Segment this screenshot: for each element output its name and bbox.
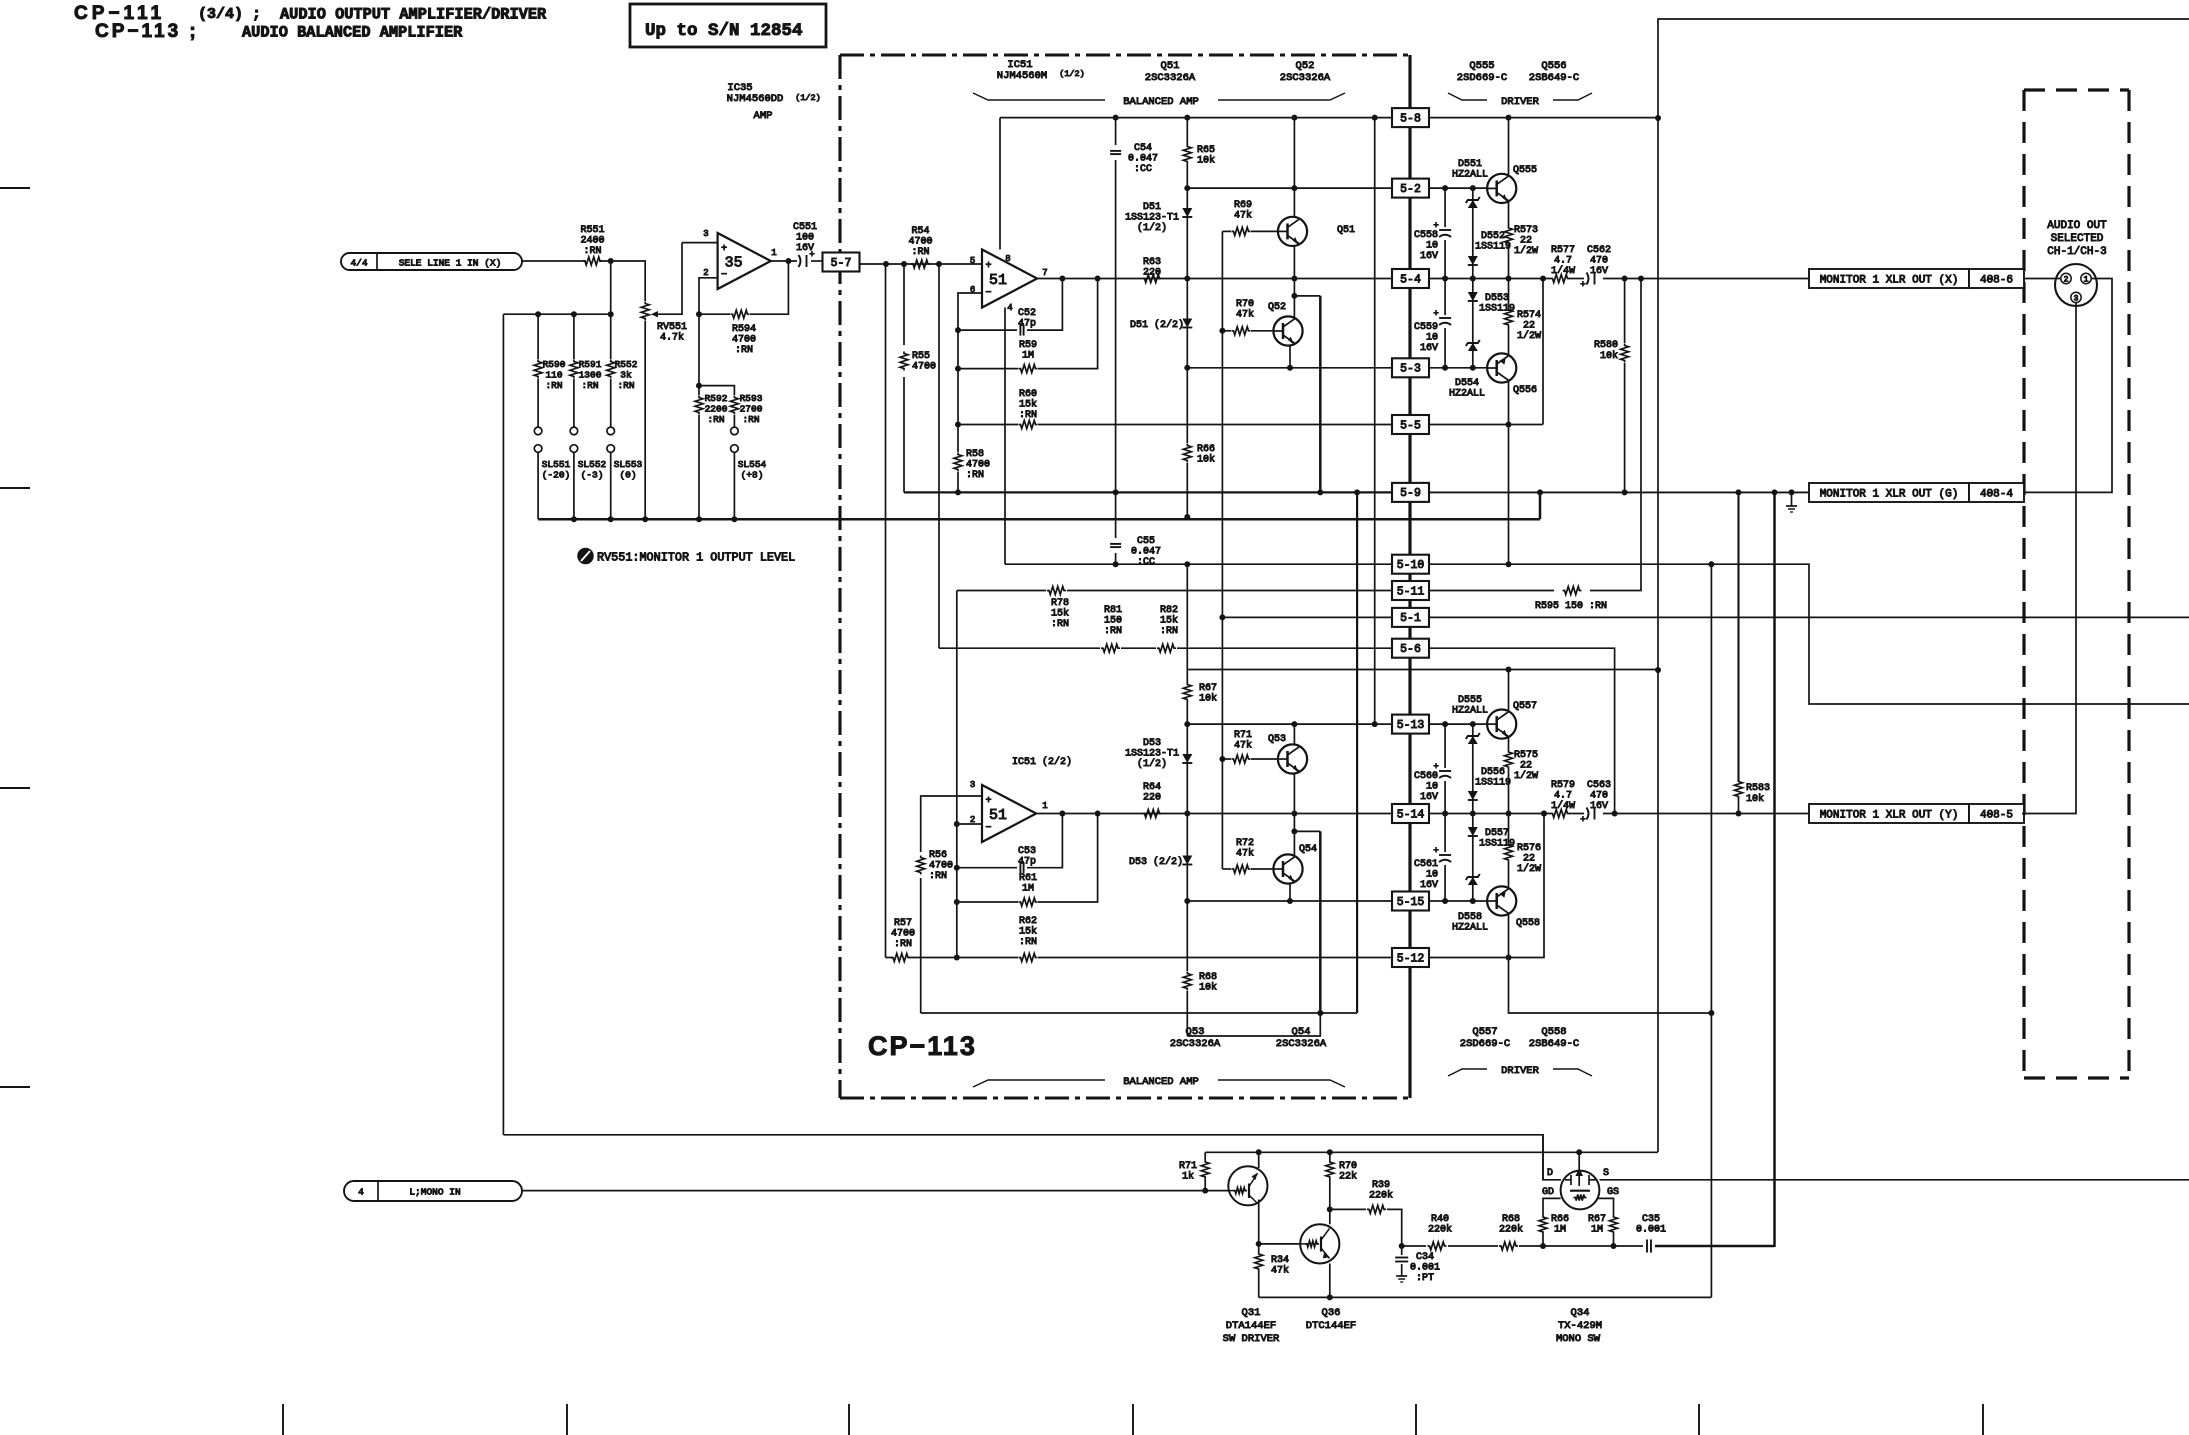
svg-text:R579: R579 [1551, 780, 1575, 791]
svg-text:7: 7 [1042, 268, 1047, 278]
svg-text:IC51 (2/2): IC51 (2/2) [1012, 756, 1072, 768]
wire: 5-3 net [1187, 367, 1392, 369]
FET Q34 TX-429M (mono switch) [1543, 1245, 1614, 1247]
svg-text:4/4: 4/4 [350, 258, 367, 269]
svg-text:R39: R39 [1372, 1180, 1390, 1191]
svg-text::RN: :RN [617, 380, 634, 391]
svg-text:BALANCED AMP: BALANCED AMP [1123, 1076, 1199, 1088]
net-name box: MONITOR 1 XLR OUT (G) / 408-4 [1809, 483, 1969, 502]
svg-text:R594: R594 [732, 324, 756, 335]
svg-text:51: 51 [989, 272, 1007, 289]
svg-text:AUDIO OUTPUT AMPLIFIER/DRIVER: AUDIO OUTPUT AMPLIFIER/DRIVER [280, 6, 547, 24]
svg-text:Q558: Q558 [1541, 1026, 1566, 1038]
svg-text:S: S [1603, 1168, 1609, 1179]
XLR output connector J (pins 1,2,3) [2055, 264, 2097, 306]
svg-text:22: 22 [1520, 761, 1532, 772]
resistor R551 2400 :RN [583, 257, 602, 265]
resistor R592 2200 :RN [698, 386, 700, 395]
transistor Q52 2SC3326A [1273, 316, 1302, 345]
wire: Q54 emitter to 5-15 net [1289, 884, 1291, 902]
svg-text:R576: R576 [1517, 843, 1541, 854]
svg-text:Q556: Q556 [1541, 60, 1566, 72]
svg-text:R81: R81 [1104, 605, 1122, 616]
svg-text:220k: 220k [1499, 1224, 1523, 1236]
svg-text:R69: R69 [1234, 200, 1252, 211]
svg-text:408-6: 408-6 [1980, 275, 2013, 287]
connector 5-9 [1392, 483, 1429, 502]
svg-text:1M: 1M [1554, 1225, 1566, 1236]
serial-number box: Up to S/N 12854 [630, 4, 826, 47]
svg-text::RN: :RN [1104, 626, 1122, 637]
svg-text:+: + [1580, 280, 1585, 290]
dashed unit boundary box (right side) [2024, 88, 2129, 91]
svg-text:(+8): (+8) [741, 470, 764, 481]
svg-text:C551: C551 [793, 222, 817, 233]
svg-text:TX-429M: TX-429M [1558, 1320, 1602, 1332]
wire: X net from op-amp output to 5-4 [1037, 278, 1392, 280]
capacitor C560 10/16V [1444, 724, 1446, 768]
svg-text:2SD669-C: 2SD669-C [1457, 72, 1507, 84]
resistor R65 10k (5-8 to 5-2) [1186, 118, 1188, 145]
svg-text:RV551: RV551 [657, 322, 687, 333]
resistor R54 4700 :RN [911, 260, 930, 268]
svg-text:(1/2): (1/2) [1059, 69, 1085, 79]
svg-text:D51: D51 [1143, 202, 1161, 213]
resistor R66 10k (to G bus) [1186, 368, 1188, 443]
svg-text:35: 35 [725, 254, 743, 271]
svg-text::RN: :RN [1160, 626, 1178, 637]
svg-text:5-5: 5-5 [1400, 419, 1421, 432]
svg-text:4700: 4700 [966, 460, 990, 471]
connector 5-15 [1392, 892, 1429, 911]
connector 5-11 [1392, 581, 1429, 600]
svg-text:D51 (2/2): D51 (2/2) [1130, 319, 1184, 331]
svg-text:220k: 220k [1369, 1190, 1393, 1202]
svg-text:SW DRIVER: SW DRIVER [1223, 1333, 1280, 1345]
wire: 5-13 net [1187, 723, 1392, 725]
svg-text:SL552: SL552 [578, 459, 607, 470]
resistor R595 150 :RN [1563, 587, 1582, 595]
svg-text:2SB649-C: 2SB649-C [1529, 1038, 1579, 1050]
resistor R55 4700 (to G) [903, 264, 905, 345]
svg-text:4: 4 [358, 1187, 364, 1198]
svg-text:C559: C559 [1414, 322, 1438, 333]
svg-text::RN: :RN [1019, 937, 1037, 948]
svg-text:8: 8 [1005, 254, 1010, 264]
svg-text:2700: 2700 [740, 404, 763, 415]
capacitor C34 0.001 :PT with ground [1401, 1246, 1403, 1255]
resistor R575 22 1/2W (Q557 emitter) [1508, 738, 1510, 750]
svg-text:HZ2ALL: HZ2ALL [1452, 923, 1488, 934]
wire: Q51 emitter to X net to Q52 collector [1293, 246, 1295, 317]
svg-text:16V: 16V [1590, 266, 1608, 277]
resistor R67 1M (gate-source) [1613, 1234, 1615, 1246]
connector 5-12 [1392, 948, 1429, 967]
transistor Q556 2SB649-C [1487, 353, 1516, 382]
wire: collector branch to G (thick) [1294, 295, 1320, 297]
svg-text:DTA144EF: DTA144EF [1226, 1320, 1276, 1332]
svg-text:2SC3326A: 2SC3326A [1145, 72, 1196, 84]
svg-text:SELE LINE 1 IN (X): SELE LINE 1 IN (X) [399, 258, 502, 269]
svg-text::RN: :RN [735, 345, 753, 356]
resistor R34 47k [1258, 1244, 1260, 1252]
capacitor C561 10/16V [1444, 814, 1446, 853]
svg-text:10: 10 [1426, 241, 1438, 252]
svg-text:AUDIO OUT: AUDIO OUT [2047, 220, 2107, 232]
resistor R70 22k [1326, 1160, 1334, 1179]
svg-text:2: 2 [703, 268, 708, 278]
connector 5-3 [1392, 358, 1429, 377]
svg-text:−: − [721, 270, 727, 281]
wire: X net into XLR pin 2 [2024, 278, 2061, 280]
svg-text:R71: R71 [1234, 730, 1252, 741]
wire: 5-7 drop to lower amp (R57) [885, 264, 887, 958]
op-amp IC35 (35) [718, 233, 771, 289]
svg-text::RN: :RN [545, 380, 562, 391]
svg-text::RN: :RN [929, 871, 947, 882]
diode D51 (2/2) [1186, 279, 1188, 368]
svg-text::RN: :RN [894, 939, 912, 950]
svg-text:22k: 22k [1339, 1171, 1357, 1183]
svg-text:R575: R575 [1514, 750, 1538, 761]
svg-text:R54: R54 [911, 226, 929, 237]
svg-text:Q52: Q52 [1268, 302, 1286, 313]
svg-text:−: − [985, 288, 991, 299]
svg-text:R40: R40 [1431, 1214, 1449, 1225]
connector 5-14 [1392, 804, 1429, 823]
svg-text:0.001: 0.001 [1636, 1225, 1666, 1236]
svg-text:R71: R71 [1179, 1161, 1197, 1172]
bias rail from 5-1 to 47k bases [1221, 231, 1223, 617]
svg-text:(0): (0) [619, 470, 636, 481]
resistor R72 47k (base Q54) [1222, 868, 1231, 870]
bracket DRIVER (top) [1448, 93, 1487, 100]
wire: Q53 emitter to Y net to Q54 collector [1293, 773, 1295, 855]
resistor R70 47k (base Q52) [1222, 330, 1231, 332]
svg-text:Q52: Q52 [1296, 60, 1315, 72]
svg-text:Q34: Q34 [1571, 1307, 1590, 1319]
transistor Q36 DTC144EF (digital NPN) [1300, 1224, 1339, 1263]
wire: 5-11 net through R595 up to X net [1429, 590, 1554, 592]
svg-text:3k: 3k [620, 370, 632, 381]
resistor R61 1M (feedback) [957, 901, 1018, 903]
slide switch SL552 (-3) [570, 427, 578, 435]
svg-text:110: 110 [545, 370, 562, 381]
svg-text:5-7: 5-7 [831, 257, 852, 270]
capacitor C52 47p (feedback) [958, 329, 1017, 331]
svg-text:5-10: 5-10 [1397, 559, 1425, 572]
svg-text:220k: 220k [1428, 1224, 1452, 1236]
svg-text:R65: R65 [1197, 145, 1215, 156]
svg-text:16V: 16V [1420, 880, 1438, 891]
resistor R81 150 :RN [1101, 644, 1120, 652]
svg-text:1SS123-T1: 1SS123-T1 [1125, 749, 1179, 760]
svg-text:C54: C54 [1134, 143, 1152, 154]
ground symbol near XLR G [1791, 492, 1793, 506]
transistor Q53 2SC3326A [1293, 724, 1295, 745]
svg-text:R57: R57 [894, 918, 912, 929]
svg-text:4700: 4700 [891, 929, 915, 940]
svg-text:15k: 15k [1051, 608, 1069, 620]
transistor Q54 2SC3326A [1273, 854, 1302, 883]
svg-text:DTC144EF: DTC144EF [1306, 1320, 1356, 1332]
wire: lower rail 2 (R68 return) [1187, 1013, 1320, 1036]
net-name box: MONITOR 1 XLR OUT (Y) / 408-5 [1809, 804, 1969, 823]
svg-text:DRIVER: DRIVER [1501, 96, 1540, 108]
wire: 5-15 net [1187, 900, 1392, 902]
wire: 5-7 drop to 5-6 net [938, 264, 940, 648]
svg-text:(1/2): (1/2) [1137, 222, 1167, 234]
svg-text::PT: :PT [1416, 1273, 1434, 1284]
resistor R63 220 (X net) [1143, 275, 1162, 283]
connector 5-1 [1392, 608, 1429, 627]
resistor R57 4700 :RN (input from 5-7 drop) [886, 957, 893, 959]
svg-text:D554: D554 [1455, 378, 1479, 389]
svg-text:+: + [721, 244, 727, 255]
diode D53 (2/2) [1186, 814, 1188, 902]
svg-text:C35: C35 [1642, 1214, 1660, 1225]
svg-text:NJM4560M: NJM4560M [997, 70, 1047, 82]
svg-text:4: 4 [1007, 303, 1012, 313]
svg-text:470: 470 [1590, 256, 1608, 267]
svg-text:R61: R61 [1019, 873, 1037, 884]
wire: thick mute line from C35 to G net [1655, 1245, 1775, 1248]
resistor R60 15k :RN (to 5-5) [958, 424, 1018, 426]
wire: Q31 collector row to Q36 base [1259, 1243, 1301, 1245]
wire: IC51a pin4 down to 5-10 rail [1004, 308, 1006, 565]
connector 5-2 [1392, 179, 1429, 198]
svg-text:R55: R55 [912, 351, 930, 362]
svg-text:+: + [985, 261, 991, 272]
resistor R40 220k [1428, 1242, 1447, 1250]
svg-text:D552: D552 [1481, 231, 1505, 242]
svg-text:GD: GD [1542, 1187, 1554, 1198]
wire: R70 column (Q36 collector to rail) [1329, 1152, 1331, 1160]
svg-text:CP−113: CP−113 [868, 1031, 977, 1061]
wire: IC51a pin8 up to 5-8 rail [999, 118, 1001, 250]
svg-text:R593: R593 [740, 393, 763, 404]
svg-text:47k: 47k [1236, 309, 1254, 321]
svg-text:47p: 47p [1018, 319, 1036, 330]
svg-text:HZ2ALL: HZ2ALL [1452, 706, 1488, 717]
svg-text:R34: R34 [1271, 1255, 1289, 1266]
svg-text:16V: 16V [796, 243, 814, 254]
wire: +input via R56 to ground rail [921, 796, 982, 852]
svg-text:1SS119: 1SS119 [1475, 242, 1511, 253]
svg-text:16V: 16V [1420, 343, 1438, 354]
note: RV551 MONITOR 1 OUTPUT LEVEL [578, 549, 593, 564]
wire: -input vertical with feedback taps [958, 293, 982, 425]
svg-text:R580: R580 [1594, 340, 1618, 351]
svg-text:MONITOR 1 XLR OUT (Y): MONITOR 1 XLR OUT (Y) [1820, 810, 1959, 822]
svg-text:10k: 10k [1199, 693, 1217, 705]
capacitor C55 0.047 :CC [1115, 492, 1117, 538]
svg-text:R592: R592 [705, 393, 728, 404]
svg-text:C563: C563 [1587, 780, 1611, 791]
wire: Y net from op-amp output to 5-14 [1037, 813, 1392, 815]
svg-text::RN: :RN [742, 414, 759, 425]
resistor R59 1M (feedback) [958, 368, 1018, 370]
svg-text:D555: D555 [1458, 695, 1482, 706]
resistor R62 15k :RN (to 5-12) [957, 957, 1018, 959]
svg-text:R551: R551 [580, 225, 604, 236]
resistor R39 220k [1330, 1208, 1366, 1210]
svg-text:R573: R573 [1514, 225, 1538, 236]
transistor Q51 2SC3326A [1293, 118, 1295, 217]
svg-text:GS: GS [1607, 1187, 1619, 1198]
wire: +input net from 5-7 [859, 263, 982, 265]
svg-text:1/2W: 1/2W [1517, 330, 1541, 342]
svg-text:5-11: 5-11 [1397, 585, 1425, 598]
svg-text:3: 3 [703, 229, 708, 239]
wire: 5-10 rail (left of connector) [1005, 563, 1392, 565]
svg-text:1k: 1k [1182, 1171, 1194, 1183]
wire: 5-2 net [1187, 187, 1392, 189]
bracket BALANCED AMP (top) [973, 93, 1105, 100]
svg-text::RN: :RN [583, 246, 601, 257]
svg-text:(3/4) ;: (3/4) ; [198, 6, 261, 23]
svg-text:15k: 15k [1160, 615, 1178, 627]
resistor R68 220k [1499, 1242, 1518, 1250]
svg-text:4700: 4700 [732, 335, 756, 346]
svg-text:5-13: 5-13 [1397, 719, 1425, 732]
svg-text:R590: R590 [543, 359, 566, 370]
svg-text:CP−113 ;: CP−113 ; [95, 21, 199, 42]
svg-text:5-2: 5-2 [1400, 183, 1421, 196]
svg-text:10k: 10k [1746, 793, 1764, 805]
slide switch SL554 (+8) [731, 427, 739, 435]
wire: Q555 collector to 5-8 rail [1508, 118, 1510, 175]
svg-text:Q51: Q51 [1161, 60, 1180, 72]
transistor Q558 2SB649-C [1487, 886, 1516, 915]
wire: left feed down (to board bottom) [502, 314, 504, 1135]
svg-text:1SS119: 1SS119 [1475, 778, 1511, 789]
svg-text:D557: D557 [1485, 828, 1509, 839]
capacitor C563 470/16V (Y net) [1587, 808, 1589, 820]
svg-text:3: 3 [2074, 294, 2079, 303]
wire: mono-in row to Q31 base [522, 1190, 1229, 1192]
svg-text:10k: 10k [1199, 982, 1217, 994]
svg-text:220: 220 [1143, 268, 1161, 279]
svg-text:SL553: SL553 [614, 459, 643, 470]
svg-text:R574: R574 [1517, 310, 1541, 321]
wire: switched output rail y1152 [1205, 1151, 1658, 1153]
resistor R583 10k (G net to Y net) [1737, 492, 1739, 781]
svg-text:1M: 1M [1022, 884, 1034, 895]
svg-text:R67: R67 [1588, 1214, 1606, 1225]
svg-text:10: 10 [1426, 333, 1438, 344]
connector bus (board edge, thick vertical) [1408, 55, 1411, 1098]
svg-text:MONITOR 1 XLR OUT (X): MONITOR 1 XLR OUT (X) [1820, 275, 1959, 287]
wire: G net from 5-9 to XLR G box [1429, 491, 1809, 493]
svg-text:408-4: 408-4 [1980, 489, 2013, 501]
wire: bottom return row to x1711 [1259, 1296, 1712, 1298]
bracket BALANCED AMP (bottom) [973, 1080, 1105, 1087]
input connector pill: 4 L;MONO IN [344, 1181, 522, 1201]
svg-text:R70: R70 [1236, 299, 1254, 310]
svg-text:22: 22 [1520, 236, 1532, 247]
svg-text:4.7: 4.7 [1554, 791, 1572, 802]
svg-text:5-4: 5-4 [1400, 273, 1421, 286]
svg-text:1/2W: 1/2W [1517, 863, 1541, 875]
capacitor C551 100/16V [799, 255, 801, 267]
resistor R590 110 :RN [537, 314, 539, 359]
svg-text:2200: 2200 [705, 404, 728, 415]
svg-text::CC: :CC [1137, 557, 1155, 568]
svg-text:D558: D558 [1458, 912, 1482, 923]
wire: -input node vertical (from 5-11 feed) [956, 591, 958, 958]
svg-text:5-14: 5-14 [1397, 808, 1425, 821]
svg-text:MONO SW: MONO SW [1556, 1333, 1601, 1345]
FET body Q34 [1561, 1171, 1600, 1210]
resistor R58 4700 :RN (to G) [957, 425, 959, 453]
svg-text:(1/2): (1/2) [795, 93, 821, 103]
op-amp IC51b (2/2) [982, 785, 1036, 842]
svg-text:4.7: 4.7 [1554, 256, 1572, 267]
input connector pill: 4/4 SELE LINE 1 IN (X) [341, 253, 522, 270]
svg-text:R66: R66 [1551, 1214, 1569, 1225]
svg-text:5-1: 5-1 [1400, 612, 1421, 625]
svg-text:1: 1 [1042, 801, 1047, 811]
svg-text:0.047: 0.047 [1131, 547, 1161, 558]
wire: gate row R40/R68/C35 [1402, 1245, 1426, 1247]
svg-text:22: 22 [1523, 854, 1535, 865]
resistor R577 4.7 1/4W (X net) [1544, 278, 1551, 280]
svg-text:C558: C558 [1414, 230, 1438, 241]
resistor R71 1k [1204, 1152, 1206, 1160]
capacitor C562 470/16V (X net) [1587, 273, 1589, 285]
svg-text:C53: C53 [1018, 846, 1036, 857]
svg-text:1M: 1M [1022, 351, 1034, 362]
svg-text:R67: R67 [1199, 683, 1217, 694]
svg-text:Q556: Q556 [1513, 385, 1537, 396]
svg-text:R59: R59 [1019, 340, 1037, 351]
svg-text:15k: 15k [1019, 399, 1037, 411]
svg-text:R68: R68 [1502, 1214, 1520, 1225]
wire: 5-11 net with R78 to lower -input [957, 590, 1046, 592]
svg-text:R583: R583 [1746, 783, 1770, 794]
svg-text:C560: C560 [1414, 771, 1438, 782]
wire: input row to R551 and RV551 [522, 260, 586, 262]
svg-text:NJM4560DD: NJM4560DD [727, 93, 784, 105]
svg-text:10: 10 [1426, 870, 1438, 881]
svg-text:10k: 10k [1197, 155, 1215, 167]
resistor R66 1M (gate-drain) [1542, 1234, 1544, 1246]
svg-text:2SC3326A: 2SC3326A [1276, 1038, 1327, 1050]
svg-text:47k: 47k [1234, 210, 1252, 222]
wire: Q52 emitter to 5-3 net [1289, 346, 1291, 368]
svg-text:5-15: 5-15 [1397, 896, 1425, 909]
svg-text:2SD669-C: 2SD669-C [1460, 1038, 1510, 1050]
svg-text:R595 150 :RN: R595 150 :RN [1535, 601, 1607, 612]
svg-text:R60: R60 [1019, 389, 1037, 400]
svg-text:16V: 16V [1420, 792, 1438, 803]
resistor R67 10k [1186, 564, 1188, 683]
svg-text:D53 (2/2): D53 (2/2) [1129, 856, 1183, 868]
svg-text:2SC3326A: 2SC3326A [1280, 72, 1331, 84]
connector 5-8 [1392, 108, 1429, 127]
svg-text::RN: :RN [911, 247, 929, 258]
svg-text:Q54: Q54 [1299, 844, 1317, 855]
svg-text:4700: 4700 [912, 362, 936, 373]
svg-text:10: 10 [1426, 782, 1438, 793]
wire: 5-5 net [1429, 424, 1543, 426]
capacitor C54 0.047 :CC [1115, 118, 1117, 145]
svg-text:R63: R63 [1143, 257, 1161, 268]
wire: 5-1 net to right edge [1429, 616, 2189, 618]
capacitor C35 0.001 [1614, 1245, 1644, 1247]
svg-text:2SC3326A: 2SC3326A [1170, 1038, 1221, 1050]
